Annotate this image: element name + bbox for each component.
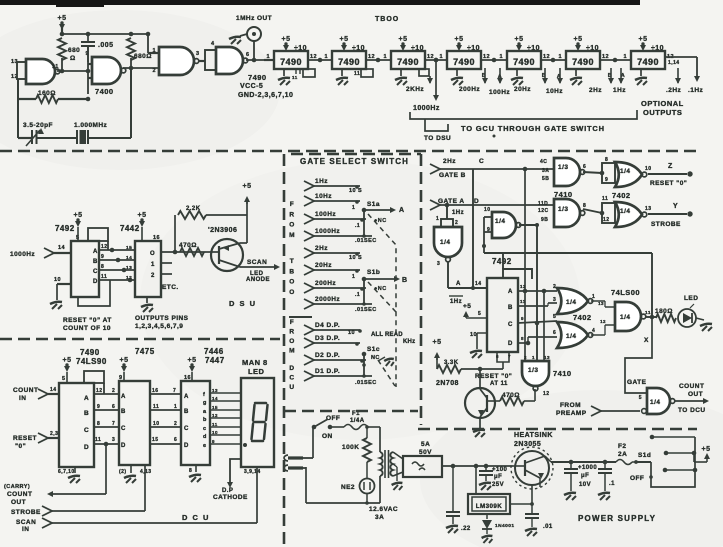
- gate U3b 7402: [557, 322, 595, 348]
- border left column: [283, 154, 286, 545]
- svg-text:7490: 7490: [513, 57, 535, 67]
- svg-text:12: 12: [543, 391, 549, 397]
- svg-text:.22: .22: [461, 526, 471, 532]
- decoder U10 7442: [120, 224, 161, 297]
- svg-text:RESET: RESET: [13, 435, 37, 442]
- diode D2 1N4001: [482, 514, 515, 543]
- border gss bottom: [284, 410, 418, 413]
- svg-text:(CARRY): (CARRY): [4, 484, 30, 490]
- wire U11-U12 C: [94, 421, 119, 427]
- capacitor 100uF: [479, 466, 508, 490]
- wire rail to gate3: [146, 32, 159, 53]
- svg-text:1Hz: 1Hz: [450, 299, 462, 305]
- svg-text:B: B: [184, 409, 189, 415]
- svg-text:'2N3906: '2N3906: [208, 227, 237, 234]
- pin labels U3: [324, 54, 375, 60]
- svg-text:TO DCU: TO DCU: [678, 407, 706, 414]
- svg-text:COUNT: COUNT: [13, 387, 38, 394]
- svg-text:7492: 7492: [55, 224, 75, 233]
- svg-text:D S U: D S U: [229, 299, 257, 308]
- input count in: [13, 387, 59, 402]
- wire divider chain: [264, 57, 697, 66]
- pin labels U7: [558, 54, 609, 60]
- svg-text:A: A: [121, 394, 126, 400]
- svg-text:9: 9: [97, 404, 100, 410]
- svg-text:2Hz: 2Hz: [315, 245, 328, 252]
- svg-text:OUT: OUT: [11, 499, 26, 506]
- wire 1Hz node: [436, 205, 464, 228]
- switch S1c: [355, 346, 394, 386]
- input gate A: [430, 198, 554, 210]
- svg-text:2N708: 2N708: [436, 380, 459, 387]
- svg-text:5: 5: [478, 311, 481, 317]
- svg-text:C: C: [121, 426, 126, 432]
- svg-text:14: 14: [50, 387, 56, 393]
- svg-text:B: B: [121, 409, 126, 415]
- capacitor .005: [81, 34, 113, 62]
- svg-text:15: 15: [152, 437, 158, 443]
- svg-text:11D: 11D: [538, 201, 548, 207]
- svg-text:D: D: [84, 444, 89, 451]
- ground U5: [451, 69, 463, 85]
- counter U9 7492: [55, 224, 99, 297]
- resistor 680 ohm right: [127, 38, 152, 70]
- svg-text:S1c: S1c: [367, 346, 380, 353]
- resistor 470 ohm GCU: [500, 389, 535, 405]
- svg-text:1N4001: 1N4001: [495, 523, 515, 529]
- wire gate1 output: [57, 69, 90, 74]
- svg-text:7490: 7490: [280, 57, 302, 67]
- svg-text:8: 8: [189, 468, 192, 474]
- svg-text:12: 12: [600, 319, 606, 324]
- svg-text:1/4: 1/4: [440, 239, 450, 246]
- wire gate1 inputs: [17, 62, 26, 99]
- lamp NE2 neon: [341, 479, 375, 504]
- wire gate2 inputs: [88, 46, 92, 94]
- svg-text:1: 1: [436, 216, 439, 222]
- svg-text:20Hz: 20Hz: [514, 86, 531, 93]
- svg-text:13: 13: [126, 265, 132, 271]
- svg-text:100Hz: 100Hz: [489, 89, 510, 96]
- border TBOO bottom: [0, 150, 697, 153]
- divider U5 7490: [447, 51, 481, 69]
- switch S2 on-off: [312, 415, 344, 440]
- svg-text:13: 13: [212, 388, 218, 393]
- svg-text:11: 11: [101, 274, 107, 280]
- svg-text:GATE A: GATE A: [438, 198, 465, 205]
- wire U10 outputs: [161, 250, 206, 291]
- label DSU: [229, 299, 257, 308]
- wire U9 top loop: [88, 228, 108, 250]
- svg-text:13: 13: [645, 206, 651, 212]
- wire top rail: [60, 28, 148, 36]
- svg-text:11: 11: [645, 310, 651, 316]
- wire U7b in: [482, 217, 492, 253]
- divider U2 7490: [274, 51, 308, 69]
- svg-text:+100: +100: [492, 467, 508, 473]
- svg-text:12: 12: [96, 388, 102, 394]
- wire U8 row B: [518, 297, 557, 306]
- resistor 470 ohm DSU: [179, 242, 204, 256]
- resistor 680 ohm left: [58, 38, 80, 71]
- svg-text:5B: 5B: [542, 176, 549, 182]
- svg-text:RESET “0” AT: RESET “0” AT: [63, 317, 112, 324]
- label heatsink: [514, 432, 553, 448]
- input 1Hz: [304, 178, 362, 194]
- output Z reset: [648, 163, 693, 187]
- svg-text:4C: 4C: [540, 159, 547, 165]
- svg-text:+5: +5: [515, 36, 524, 43]
- label 7410 upper: [554, 190, 573, 199]
- wire U7a out: [448, 262, 487, 305]
- svg-text:D2 D.P.: D2 D.P.: [315, 352, 340, 359]
- svg-text:D: D: [93, 279, 98, 285]
- power +5 U12: [119, 357, 128, 381]
- svg-text:ANODE: ANODE: [246, 277, 270, 283]
- svg-text:1Hz: 1Hz: [315, 178, 328, 185]
- svg-text:÷10: ÷10: [586, 45, 599, 52]
- gate U3a 7402: [557, 288, 595, 314]
- node A tbo text: [289, 201, 295, 296]
- svg-text:7490: 7490: [248, 73, 267, 82]
- wire U7b out: [519, 223, 539, 227]
- svg-text:CATHODE: CATHODE: [213, 494, 248, 501]
- svg-text:.1: .1: [355, 223, 360, 229]
- svg-text:μF: μF: [581, 473, 589, 479]
- svg-text:10Hz: 10Hz: [546, 88, 563, 95]
- svg-text:1000Hz: 1000Hz: [10, 251, 35, 258]
- plug AC line: [284, 427, 313, 471]
- svg-text:7: 7: [173, 388, 176, 394]
- svg-text:STROBE: STROBE: [651, 221, 681, 228]
- svg-text:10: 10: [212, 430, 218, 435]
- svg-text:"0": "0": [15, 443, 26, 450]
- ground U4: [395, 69, 407, 85]
- svg-text:6: 6: [112, 404, 115, 410]
- ground jack: [229, 34, 247, 44]
- latch U12 7475 box: [119, 381, 150, 465]
- ground U2: [278, 69, 290, 85]
- label gate select switch: [300, 157, 409, 166]
- svg-text:74LS90: 74LS90: [76, 357, 107, 366]
- svg-text:14: 14: [126, 255, 132, 261]
- svg-text:9: 9: [605, 177, 608, 183]
- svg-text:+5: +5: [58, 15, 67, 22]
- svg-text:10 S: 10 S: [349, 188, 362, 194]
- svg-text:c: c: [203, 426, 207, 432]
- svg-text:7402: 7402: [573, 313, 592, 322]
- svg-text:11: 11: [153, 404, 159, 410]
- gate U5b 7410: [538, 199, 586, 227]
- svg-text:+5: +5: [282, 36, 291, 43]
- wire gate4 output: [246, 58, 274, 63]
- svg-text:74LS00: 74LS00: [611, 288, 640, 297]
- svg-text:2Hz: 2Hz: [443, 158, 456, 165]
- svg-text:TO DSU: TO DSU: [424, 135, 451, 142]
- divider U3 7490: [332, 51, 366, 69]
- svg-text:1/4: 1/4: [620, 314, 630, 321]
- svg-text:2A: 2A: [618, 451, 627, 458]
- output 2KHz: [406, 69, 433, 93]
- svg-text:POWER SUPPLY: POWER SUPPLY: [578, 514, 656, 523]
- transformer T1: [380, 450, 393, 503]
- ground U3: [336, 69, 348, 85]
- svg-text:C: C: [508, 322, 513, 328]
- wire secondary: [392, 452, 403, 490]
- svg-text:14: 14: [475, 281, 481, 287]
- svg-text:14: 14: [58, 245, 66, 251]
- svg-text:÷10: ÷10: [651, 45, 664, 52]
- svg-text:GATE: GATE: [627, 379, 647, 386]
- wire dc rail: [442, 464, 513, 469]
- svg-text:10: 10: [54, 277, 61, 283]
- capacitor .1 output: [598, 462, 615, 500]
- svg-text:9: 9: [101, 254, 104, 260]
- svg-text:5: 5: [62, 376, 66, 382]
- svg-text:SCAN: SCAN: [16, 519, 36, 526]
- svg-text:C: C: [93, 269, 98, 275]
- svg-text:+1000: +1000: [578, 465, 597, 471]
- svg-text:B: B: [84, 410, 89, 417]
- svg-text:7447: 7447: [205, 356, 225, 365]
- svg-text:B: B: [402, 277, 408, 284]
- display DS1 MAN8 box: [241, 378, 274, 467]
- svg-text:7410: 7410: [553, 369, 572, 378]
- svg-text:.01SEC: .01SEC: [355, 380, 377, 386]
- svg-text:R: R: [289, 211, 294, 218]
- label all read: [371, 332, 415, 345]
- svg-text:.01SEC: .01SEC: [355, 307, 377, 313]
- svg-text:7402: 7402: [612, 191, 631, 200]
- svg-text:D: D: [289, 365, 294, 372]
- input scan in: [16, 467, 257, 533]
- svg-text:2,3: 2,3: [50, 431, 58, 437]
- power +5 U8: [639, 36, 664, 52]
- svg-text:+5: +5: [74, 212, 83, 219]
- pin labels U2: [266, 54, 317, 60]
- wire DP cathode: [213, 459, 248, 501]
- svg-text:1,14: 1,14: [668, 60, 680, 66]
- svg-text:VCC-5: VCC-5: [240, 83, 263, 90]
- input D4 DP: [304, 322, 362, 336]
- label 1000Hz input: [10, 248, 71, 258]
- wire reset top: [484, 253, 652, 279]
- svg-text:16: 16: [153, 235, 160, 241]
- svg-text:1000Hz: 1000Hz: [315, 228, 340, 235]
- svg-text:12: 12: [520, 284, 526, 289]
- wire C net: [524, 169, 526, 291]
- svg-text:÷10: ÷10: [527, 45, 540, 52]
- wire from preamp: [556, 402, 646, 417]
- svg-text:1: 1: [152, 48, 156, 54]
- svg-text:÷10: ÷10: [294, 45, 307, 52]
- wire gate3 to gate4: [199, 50, 216, 70]
- svg-text:7442: 7442: [120, 224, 140, 233]
- svg-text:6: 6: [583, 164, 586, 170]
- regulator U14 LM309K: [468, 466, 532, 514]
- wire U12-U13 B: [150, 404, 181, 410]
- divider U8 7490: [631, 51, 665, 69]
- wire U8 row A: [518, 284, 557, 293]
- resistor 3.3K: [437, 360, 503, 373]
- svg-text:A: A: [456, 281, 461, 287]
- svg-text:+5: +5: [455, 36, 464, 43]
- svg-text:R: R: [289, 329, 294, 336]
- svg-text:D4 D.P.: D4 D.P.: [315, 322, 340, 329]
- svg-text:11: 11: [52, 64, 59, 70]
- svg-text:8: 8: [583, 203, 586, 209]
- svg-text:4: 4: [211, 41, 215, 47]
- power +5 U9: [74, 212, 83, 241]
- svg-text:20Hz: 20Hz: [315, 262, 332, 269]
- svg-text:OUTPUTS: OUTPUTS: [643, 108, 682, 117]
- svg-text:7400: 7400: [95, 87, 114, 96]
- svg-text:S1b: S1b: [367, 269, 380, 276]
- svg-text:10: 10: [645, 166, 651, 172]
- svg-text:+5: +5: [340, 36, 349, 43]
- svg-text:C: C: [479, 158, 484, 165]
- decoder U13 7446 box: [181, 381, 210, 465]
- svg-text:F: F: [290, 319, 294, 326]
- ground U8: [470, 332, 487, 358]
- svg-text:+5: +5: [433, 339, 442, 346]
- bracket to DSU: [424, 119, 451, 142]
- svg-text:μF: μF: [494, 474, 502, 480]
- svg-text:8: 8: [97, 421, 100, 427]
- svg-text:7490: 7490: [572, 57, 594, 67]
- power +5 U13: [184, 357, 196, 381]
- svg-text:2Hz: 2Hz: [589, 87, 602, 94]
- svg-text:IN: IN: [19, 395, 26, 402]
- wire U11-U12 A: [94, 388, 119, 394]
- power +5 DSU: [243, 183, 252, 243]
- border gss right: [420, 154, 423, 425]
- wire U11 top loop: [84, 371, 104, 394]
- svg-text:9B: 9B: [541, 217, 548, 223]
- label 7490 pinout: [238, 73, 293, 99]
- output Y strobe: [648, 203, 693, 228]
- svg-text:.1: .1: [609, 481, 615, 487]
- wire U12-U13 C: [150, 421, 181, 427]
- diode LED indicator: [678, 295, 712, 331]
- svg-text:1.000MHz: 1.000MHz: [74, 122, 108, 129]
- svg-text:COUNT: COUNT: [679, 383, 704, 390]
- wire X node: [644, 253, 656, 344]
- svg-text:F2: F2: [618, 443, 627, 450]
- power +5 GCU reset: [433, 339, 442, 369]
- divider U7 7490: [566, 51, 600, 69]
- gate U1c 7400: [152, 47, 199, 75]
- svg-text:10: 10: [470, 332, 477, 338]
- svg-text:D C U: D C U: [182, 513, 210, 522]
- counter U11 7490 box: [59, 383, 94, 467]
- svg-text:RESET "0": RESET "0": [650, 180, 687, 187]
- svg-text:14: 14: [212, 396, 218, 401]
- svg-text:1/4: 1/4: [620, 168, 630, 175]
- svg-text:11: 11: [602, 196, 608, 202]
- transistor Q3 2N3055: [511, 447, 553, 489]
- svg-text:12: 12: [212, 413, 218, 418]
- power +5 U6: [515, 36, 540, 52]
- svg-text:1Hz: 1Hz: [452, 210, 464, 216]
- svg-text:LED: LED: [684, 295, 698, 302]
- svg-text:3,9,14: 3,9,14: [244, 469, 261, 475]
- svg-text:GATE SELECT SWITCH: GATE SELECT SWITCH: [300, 157, 409, 166]
- svg-text:D: D: [508, 341, 513, 347]
- input D2 DP: [304, 352, 366, 365]
- svg-text:3: 3: [437, 261, 440, 267]
- svg-text:(2): (2): [119, 469, 126, 475]
- svg-text:TO GCU THROUGH GATE SWITCH: TO GCU THROUGH GATE SWITCH: [461, 124, 605, 133]
- svg-text:3: 3: [553, 297, 556, 303]
- wire U8 row D: [518, 330, 557, 345]
- svg-text:.1: .1: [355, 292, 360, 298]
- svg-text:MAN 8: MAN 8: [242, 358, 268, 367]
- wire bottom rail: [306, 467, 398, 521]
- svg-text:LED: LED: [248, 367, 264, 376]
- svg-text:1/3: 1/3: [528, 367, 538, 374]
- power +5 U4: [399, 36, 424, 52]
- output count out: [675, 383, 709, 414]
- wire scan out: [240, 259, 280, 283]
- svg-text:2: 2: [524, 355, 527, 360]
- fuse F1: [344, 411, 380, 452]
- power +5 7492: [463, 303, 487, 318]
- wire U11-U12 B: [94, 404, 119, 410]
- wire U9-U10 B: [99, 254, 135, 262]
- svg-text:100K: 100K: [342, 444, 359, 451]
- svg-text:11: 11: [292, 75, 298, 80]
- svg-text:7490: 7490: [80, 348, 100, 357]
- svg-text:13: 13: [544, 355, 550, 360]
- wire U12-U13 A: [150, 388, 181, 394]
- input strobe: [11, 465, 145, 516]
- resistor 2.2K: [175, 206, 247, 252]
- svg-text:11: 11: [95, 437, 101, 443]
- input 10Hz: [304, 193, 360, 211]
- svg-text:KHz: KHz: [403, 339, 415, 345]
- wire U5a out: [583, 163, 615, 183]
- svg-text:3: 3: [196, 51, 200, 57]
- svg-text:T: T: [290, 258, 294, 265]
- gate U1b 7400: [85, 51, 125, 96]
- svg-text:12: 12: [101, 244, 107, 250]
- svg-text:12: 12: [603, 217, 609, 223]
- wire net2 to U4: [536, 225, 538, 361]
- svg-text:2: 2: [112, 388, 115, 394]
- label DCU: [182, 513, 210, 522]
- svg-text:b: b: [203, 417, 207, 423]
- svg-text:GATE B: GATE B: [439, 172, 466, 179]
- svg-text:A: A: [508, 289, 513, 295]
- svg-text:3.5-20pF: 3.5-20pF: [23, 122, 53, 129]
- capacitor .22: [446, 466, 471, 533]
- label 7402 upper: [612, 191, 631, 200]
- label MAN 8 LED: [242, 358, 268, 376]
- pin label LED: [244, 469, 261, 475]
- border gss top: [291, 153, 421, 156]
- pin labels U6: [499, 54, 550, 60]
- ground U7: [570, 69, 582, 85]
- svg-text:1/4: 1/4: [650, 399, 660, 406]
- wire U5b out: [583, 203, 615, 223]
- svg-text:7475: 7475: [135, 347, 155, 356]
- svg-text:OUT: OUT: [688, 391, 703, 398]
- svg-text:STROBE: STROBE: [11, 509, 41, 516]
- label reset at count: [63, 317, 112, 332]
- capacitor .01: [525, 504, 553, 536]
- switch S1b: [355, 269, 408, 313]
